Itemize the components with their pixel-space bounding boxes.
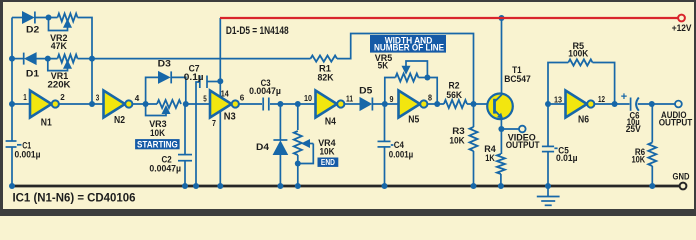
svg-text:25V: 25V <box>626 124 642 135</box>
resistor R5 100K feedback <box>548 59 615 104</box>
svg-text:BC547: BC547 <box>504 74 531 85</box>
resistor R4 1K emitter to ground <box>497 129 505 185</box>
svg-text:10K: 10K <box>320 147 335 158</box>
node: bus junction dot C2 ground <box>182 183 188 189</box>
wire: left rail vertical (N1 input node) <box>11 18 13 142</box>
svg-text:IC1 (N1-N6) = CD40106: IC1 (N1-N6) = CD40106 <box>13 192 136 204</box>
node: junction dot D2/VR2 wiper <box>46 15 52 21</box>
wire: C3 to N4 input <box>270 103 316 105</box>
wire: R1 to N5 output node (jog over label box) <box>337 34 474 105</box>
node: junction dot D1/VR1 wiper <box>45 56 51 62</box>
svg-text:10K: 10K <box>449 136 464 147</box>
wire: video output stub <box>501 128 519 130</box>
capacitor C6 10u electrolytic <box>621 91 639 111</box>
svg-text:D1-D5 = 1N4148: D1-D5 = 1N4148 <box>226 25 289 37</box>
svg-text:7: 7 <box>212 119 216 128</box>
svg-text:OUTPUT: OUTPUT <box>659 118 693 129</box>
node: bus junction dot D4 ground <box>277 183 283 189</box>
resistor R6 10K to ground <box>648 104 656 185</box>
svg-text:END: END <box>321 157 335 167</box>
svg-text:9: 9 <box>390 95 394 104</box>
svg-text:13: 13 <box>554 96 562 105</box>
svg-text:GND: GND <box>673 172 690 183</box>
wire: N1 input <box>12 103 30 105</box>
node: junction dot left rail / D1 row <box>9 56 15 62</box>
node: junction dot N2 out / VR3 / D3 <box>143 101 149 107</box>
node: junction dot D4 tap <box>277 101 283 107</box>
op-amp inverter gate N4 <box>316 91 345 118</box>
wire: T1 emitter down <box>500 118 502 129</box>
svg-text:6: 6 <box>240 94 245 103</box>
capacitor C1 <box>6 141 22 147</box>
svg-text:0.001µ: 0.001µ <box>389 149 413 160</box>
svg-text:0.01µ: 0.01µ <box>556 153 578 164</box>
svg-text:4: 4 <box>135 94 140 103</box>
svg-text:10K: 10K <box>150 128 165 139</box>
badge STARTING <box>135 139 180 149</box>
svg-text:OUTPUT: OUTPUT <box>506 140 540 151</box>
terminal: AUDIO OUTPUT <box>675 101 682 108</box>
resistor R2 56K <box>444 100 467 108</box>
node: bus junction dot R4 ground <box>498 183 504 189</box>
svg-text:N1: N1 <box>41 117 52 129</box>
node: bus junction dot VR4 ground <box>295 183 301 189</box>
node: junction dot R6 tap <box>649 101 655 107</box>
potentiometer VR5 (rheostat) <box>385 61 437 104</box>
svg-text:5: 5 <box>203 95 207 104</box>
wire: pin 7 to ground bus <box>219 111 221 185</box>
terminal: VIDEO OUTPUT <box>519 126 526 133</box>
svg-text:+12V: +12V <box>672 23 692 34</box>
svg-text:0.0047µ: 0.0047µ <box>249 86 281 97</box>
svg-text:82K: 82K <box>318 72 334 83</box>
wire: feedback vertical to N1 output <box>91 59 93 104</box>
op-amp inverter gate N5 <box>399 91 428 118</box>
terminal: +12V <box>678 15 685 22</box>
node: junction dot VR1/VR2/R1 feedback <box>89 56 95 62</box>
wire: N6 input <box>548 103 566 105</box>
node: junction dot VR4 tap <box>295 101 301 107</box>
potentiometer VR2 (rheostat) <box>49 14 78 31</box>
node: junction dot pin 8 <box>434 101 440 107</box>
svg-text:N6: N6 <box>578 114 589 126</box>
wire: D5 to N5 input <box>373 103 399 105</box>
potentiometer VR3 (rheostat) <box>146 100 181 116</box>
resistor R1 82K <box>311 56 338 62</box>
wire: C6 to audio terminal <box>638 103 675 105</box>
svg-text:1K: 1K <box>485 153 495 164</box>
svg-text:D5: D5 <box>359 86 373 97</box>
svg-text:3: 3 <box>96 94 100 103</box>
node: bus junction dot R6 ground <box>649 183 655 189</box>
svg-text:D2: D2 <box>26 25 39 36</box>
badge box WIDTH AND NUMBER OF LINE <box>370 35 446 53</box>
svg-text:220K: 220K <box>48 80 71 91</box>
wire: T1 collector to +12V rail <box>501 18 503 95</box>
op-amp inverter gate N6 <box>566 91 595 118</box>
svg-text:N3: N3 <box>224 111 236 123</box>
node: junction dot VR3/D3 right / C2 / N3 input <box>183 101 189 107</box>
wire: N2 output to VR3 <box>132 103 157 105</box>
svg-text:N2: N2 <box>114 114 125 126</box>
capacitor C2 to ground <box>178 104 192 185</box>
svg-text:10K: 10K <box>631 155 645 166</box>
svg-text:56K: 56K <box>446 90 462 101</box>
diode D1 (pointing left) <box>24 53 36 65</box>
wire: R2 to T1 base <box>467 103 488 105</box>
node: bus junction dot C1 ground <box>9 183 15 189</box>
wire: N4 output to D5 <box>344 103 360 105</box>
wire: pin 14 supply drop from +12V rail <box>219 18 221 97</box>
svg-text:5K: 5K <box>378 60 389 71</box>
diode D4 to ground (pointing up) <box>273 104 287 185</box>
capacitor C4 to ground <box>378 104 394 185</box>
potentiometer VR1 (rheostat) <box>48 55 78 71</box>
svg-text:NUMBER OF LINE: NUMBER OF LINE <box>374 43 444 53</box>
diode D3 with parallel branch <box>146 71 186 104</box>
svg-text:11: 11 <box>346 95 353 104</box>
node: bus junction dot pin7 ground <box>217 183 223 189</box>
op-amp inverter gate N1 <box>30 91 59 118</box>
capacitor C3 <box>263 98 269 111</box>
potentiometer VR4 (rheostat, vertical) <box>294 104 314 185</box>
diode D2 <box>23 12 35 24</box>
wire: N3 output to C3 <box>239 103 262 105</box>
svg-text:D4: D4 <box>256 142 270 153</box>
wire: to N3 input <box>186 103 210 105</box>
+12V rail (red) <box>220 17 678 19</box>
svg-text:47K: 47K <box>51 41 67 52</box>
op-amp inverter gate N2 <box>104 91 133 118</box>
capacitor C7 (decoupling) <box>196 76 220 186</box>
terminal: GND <box>680 183 687 190</box>
wire: N1 output to N2 input <box>59 103 104 105</box>
ground symbol <box>537 186 560 205</box>
svg-text:10: 10 <box>304 94 312 103</box>
node: junction dot collector on rail <box>499 15 505 21</box>
node: junction dot R2/R3/R1-jog <box>471 101 477 107</box>
node: junction dot N6 input <box>545 101 551 107</box>
node: junction dot VR4 wiper/bottom <box>295 161 301 167</box>
wire: N6 output to C6 <box>594 103 629 105</box>
svg-text:0.1µ: 0.1µ <box>184 72 204 83</box>
diode D5 <box>360 98 372 111</box>
svg-text:8: 8 <box>428 93 432 102</box>
svg-text:100K: 100K <box>568 49 588 60</box>
node: junction dot N5 input / VR5 / C4 <box>382 101 388 107</box>
node: junction dot video output <box>498 126 504 132</box>
node: bus junction dot C7 ground <box>193 183 199 189</box>
svg-text:1: 1 <box>23 93 27 102</box>
wire: N5 output to R2 <box>427 103 444 105</box>
svg-text:D1: D1 <box>26 68 40 79</box>
op-amp inverter gate N3 <box>210 91 239 118</box>
ground bus <box>12 185 680 188</box>
resistor R3 10K to ground <box>470 104 478 185</box>
svg-text:STARTING: STARTING <box>137 139 178 149</box>
capacitor C5 0.01u to ground <box>542 104 558 185</box>
node: junction dot N1 output / feedback <box>89 101 95 107</box>
node: junction dot N6 output / feedback <box>612 101 618 107</box>
svg-text:2: 2 <box>60 93 65 102</box>
svg-text:0.001µ: 0.001µ <box>15 149 41 160</box>
svg-text:+: + <box>621 91 627 103</box>
wire: D1 row <box>12 58 24 60</box>
node: bus junction dot R3 ground <box>471 183 477 189</box>
svg-text:0.0047µ: 0.0047µ <box>149 164 181 175</box>
svg-text:N4: N4 <box>325 116 336 128</box>
node: bus junction dot C5 ground <box>545 183 551 189</box>
node: junction dot VR5 right/wiper <box>424 75 430 81</box>
svg-text:N5: N5 <box>408 114 419 126</box>
wire: long R1 feed from feedback node <box>92 58 311 60</box>
badge END <box>318 157 339 167</box>
wire: D2 row from rail to VR2 right corner <box>12 17 23 19</box>
svg-text:12: 12 <box>598 95 605 104</box>
svg-text:D3: D3 <box>158 59 171 70</box>
node: junction dot left rail / N1 input <box>9 101 15 107</box>
node: junction dot C7 / pin14 supply <box>217 78 223 84</box>
node: bus junction dot C4 ground <box>382 183 388 189</box>
transistor T1 BC547 <box>487 94 513 120</box>
